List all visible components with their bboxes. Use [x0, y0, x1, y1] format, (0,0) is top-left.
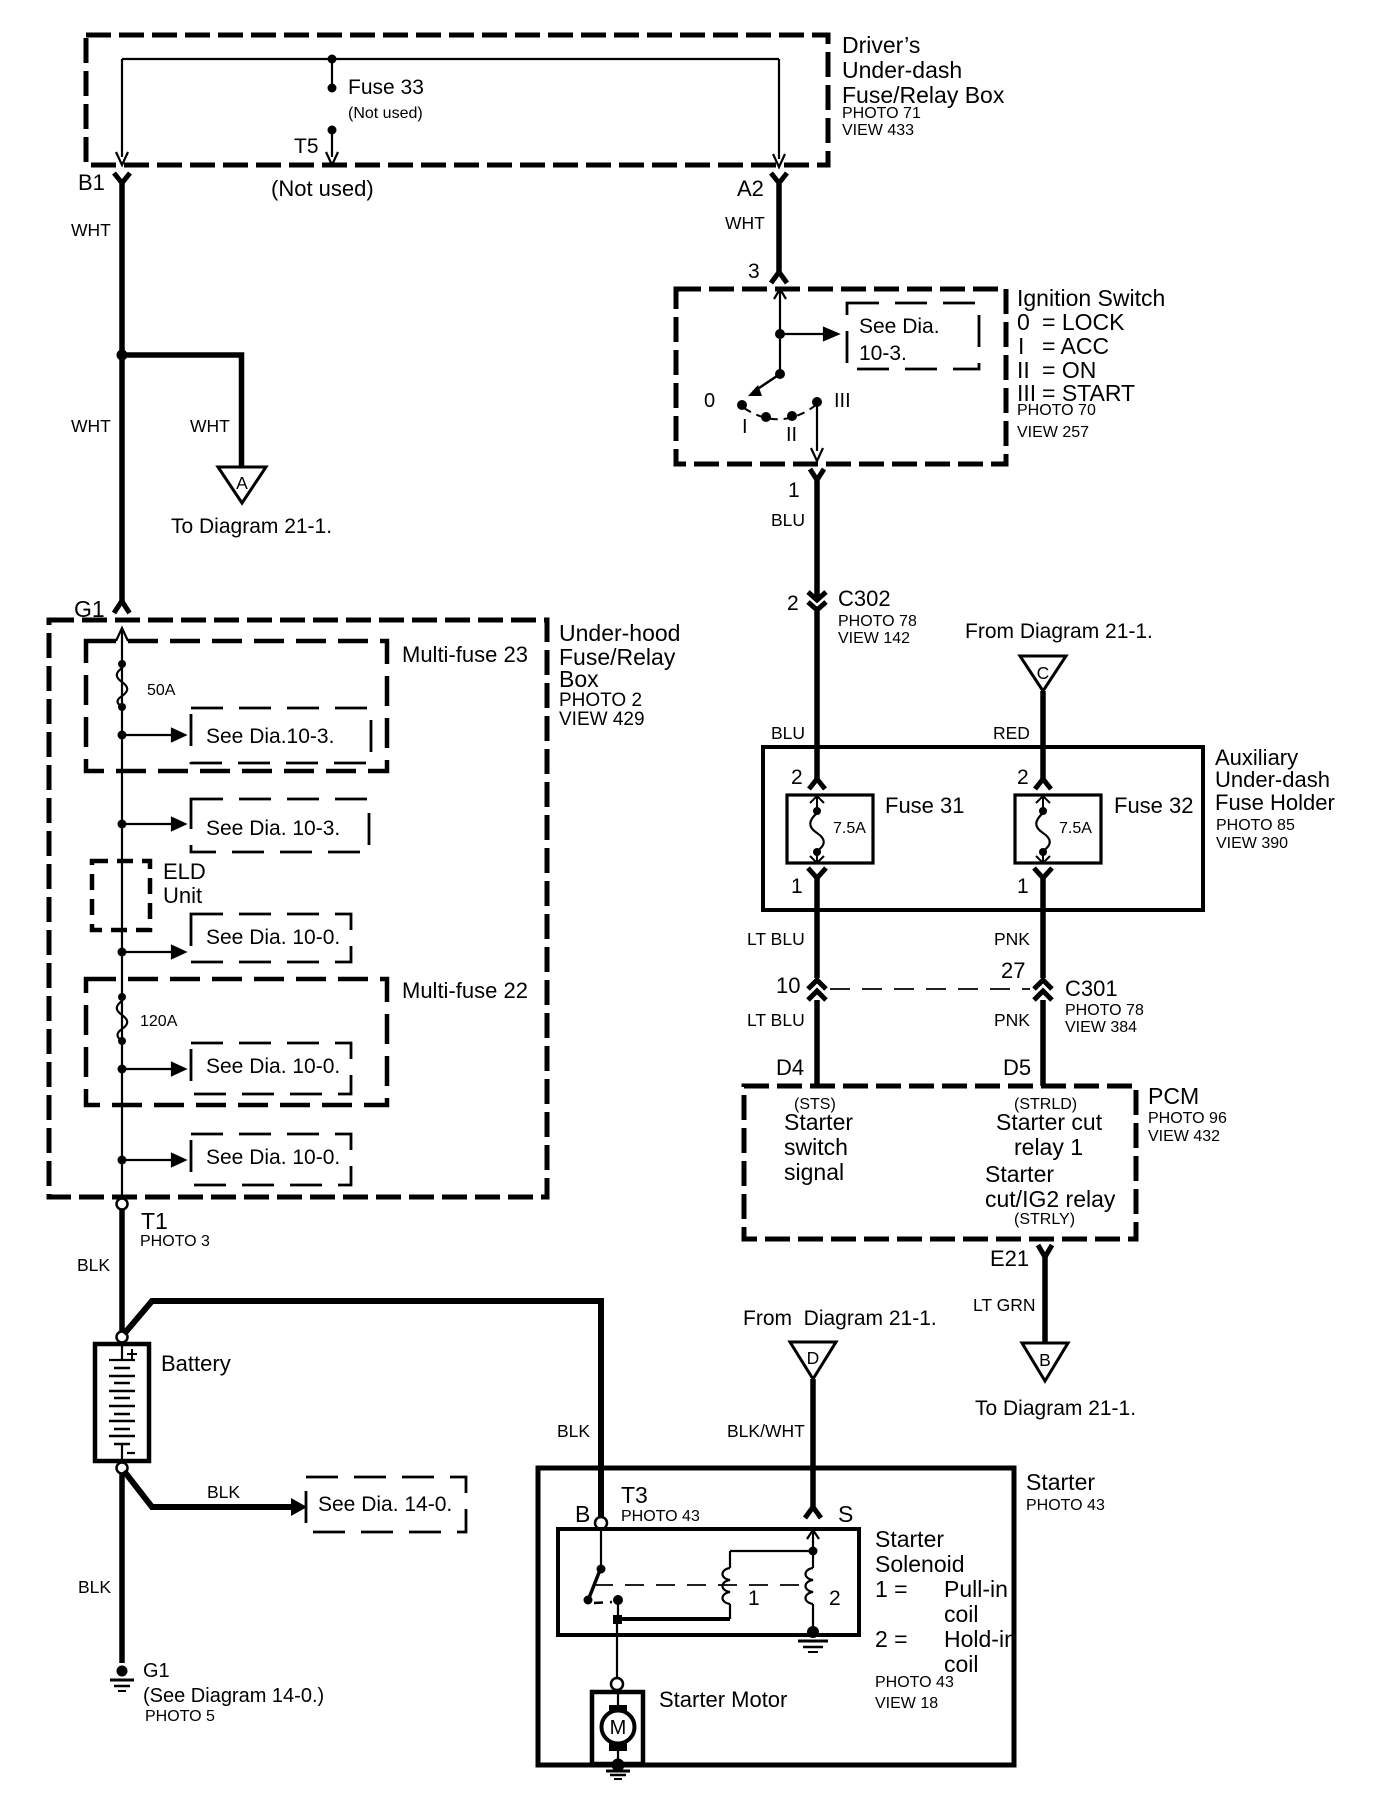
svg-text:switch: switch: [784, 1134, 848, 1160]
svg-text:(Not used): (Not used): [348, 105, 423, 122]
svg-text:(Not used): (Not used): [271, 176, 374, 201]
node: branch 4: [118, 1065, 127, 1074]
svg-text:D: D: [807, 1348, 820, 1368]
svg-text:A: A: [236, 473, 248, 493]
svg-text:Solenoid: Solenoid: [875, 1551, 965, 1577]
svg-text:BLK: BLK: [557, 1421, 590, 1441]
coil 1 pull-in coil: [620, 1617, 730, 1621]
svg-text:T5: T5: [294, 135, 319, 158]
svg-text:BLK: BLK: [77, 1255, 110, 1275]
svg-text:See Dia. 14-0.: See Dia. 14-0.: [318, 1493, 452, 1516]
pin 3 terminal fork: [771, 272, 787, 283]
svg-text:I: I: [742, 416, 748, 438]
svg-text:WHT: WHT: [71, 220, 111, 240]
fuse 31 pin 1 fork: [808, 868, 826, 878]
terminal B of starter: [595, 1517, 607, 1529]
wire BLU C302 to fuse holder: [814, 609, 820, 747]
svg-text:PHOTO 43: PHOTO 43: [1026, 1497, 1105, 1514]
node: position III START: [812, 397, 822, 407]
ref box: See Dia. 10-3.: [191, 799, 369, 852]
box: PCM: [744, 1086, 1136, 1239]
fuse F32 (Fuse 32, 7.5A): [1015, 795, 1101, 863]
wire RED connector C to fuse holder: [1040, 691, 1046, 747]
svg-text:Under-dash: Under-dash: [842, 57, 962, 83]
wire BLK/WHT connector D to starter S: [810, 1379, 816, 1508]
wire BLK to See Dia. 14-0.: [124, 1471, 291, 1507]
wire: drop to A2 with arrow: [773, 59, 785, 167]
svg-text:10: 10: [776, 973, 800, 998]
off-page connector D: [790, 1342, 836, 1379]
svg-text:Fuse Holder: Fuse Holder: [1215, 790, 1335, 815]
node: solenoid output junction: [613, 1615, 622, 1624]
wire WHT from B1: [119, 182, 125, 355]
pin A2 terminal: [771, 173, 787, 183]
wire: arrow to See Dia. 10-3.: [780, 328, 838, 340]
svg-text:ELD: ELD: [163, 859, 206, 884]
svg-text:B: B: [1039, 1350, 1051, 1370]
svg-text:BLK: BLK: [207, 1482, 240, 1502]
svg-text:Starter cut: Starter cut: [996, 1109, 1103, 1135]
node: branch 3: [118, 948, 127, 957]
svg-text:2: 2: [829, 1587, 841, 1610]
svg-text:From Diagram 21-1.: From Diagram 21-1.: [965, 620, 1153, 643]
wire PNK fuse 32 to C301: [1040, 878, 1046, 978]
svg-text:To Diagram 21-1.: To Diagram 21-1.: [975, 1397, 1136, 1420]
wire WHT branch to connector A: [122, 355, 242, 467]
svg-text:VIEW 429: VIEW 429: [559, 709, 645, 730]
wire: entry arrow at G1 into box: [116, 628, 128, 641]
pin E21 terminal fork: [1038, 1245, 1052, 1257]
svg-text:C302: C302: [838, 586, 891, 611]
fuse F33 (Fuse 33, not used): [328, 55, 337, 64]
off-page connector A: [218, 467, 266, 503]
wire WHT down to G1: [119, 355, 125, 602]
ref box: See Dia. 10-3. (ignition): [847, 303, 979, 369]
wire: dashed mechanical link: [594, 1584, 801, 1586]
svg-text:2: 2: [1017, 766, 1029, 789]
svg-text:= ACC: = ACC: [1042, 333, 1109, 359]
wire BLK to ground G1: [119, 1473, 125, 1663]
terminal S of starter: [805, 1507, 821, 1518]
svg-text:C: C: [1037, 663, 1050, 683]
wire: dashed travel arc: [744, 405, 816, 419]
node: branch 5: [118, 1156, 127, 1165]
ref box: See Dia. 10-0. (3): [191, 1134, 351, 1185]
connector C301 pin 10: [808, 980, 826, 989]
svg-text:10-3.: 10-3.: [859, 342, 907, 365]
svg-text:D5: D5: [1003, 1055, 1031, 1080]
svg-text:120A: 120A: [140, 1013, 178, 1030]
box: Under-hood Fuse/Relay Box: [49, 620, 547, 1197]
wire: arrow into solenoid from S: [807, 1530, 819, 1551]
wire LT BLU fuse 31 to C301: [814, 878, 820, 978]
box: Starter: [538, 1468, 1014, 1765]
svg-text:LT BLU: LT BLU: [747, 929, 805, 949]
svg-text:PHOTO 5: PHOTO 5: [145, 1708, 215, 1725]
svg-text:50A: 50A: [147, 682, 176, 699]
svg-text:WHT: WHT: [190, 416, 230, 436]
wire: internal bus in driver's box: [122, 58, 779, 60]
svg-text:Multi-fuse 23: Multi-fuse 23: [402, 642, 528, 667]
svg-text:See Dia. 10-0.: See Dia. 10-0.: [206, 1055, 340, 1078]
wire: arrow branch 1: [122, 729, 185, 741]
wire: arrow branch 4: [122, 1063, 185, 1075]
svg-text:0: 0: [1017, 309, 1030, 335]
switch: solenoid contact from B: [600, 1529, 602, 1569]
pin B1 terminal: [114, 173, 130, 183]
svg-text:From Diagram 21-1.: From Diagram 21-1.: [743, 1307, 937, 1330]
svg-text:Box: Box: [559, 666, 599, 692]
node: branch 2: [118, 820, 127, 829]
svg-text:See Dia. 10-3.: See Dia. 10-3.: [206, 817, 340, 840]
svg-text:II: II: [786, 424, 797, 446]
wire: drop to B1 with arrow: [116, 59, 128, 165]
svg-text:1: 1: [1017, 875, 1029, 898]
svg-text:Fuse 31: Fuse 31: [885, 793, 965, 818]
svg-text:(See Diagram 14-0.): (See Diagram 14-0.): [143, 1685, 324, 1707]
svg-text:Starter: Starter: [784, 1109, 853, 1135]
svg-text:VIEW 433: VIEW 433: [842, 122, 914, 139]
wire: entry arrow into ignition switch: [774, 289, 786, 374]
svg-text:1: 1: [788, 479, 800, 502]
svg-text:27: 27: [1001, 958, 1025, 983]
wire BLK from T1 to battery: [119, 1210, 125, 1332]
svg-text:WHT: WHT: [71, 416, 111, 436]
box: Ignition Switch: [676, 289, 1006, 464]
wire BLU ignition to C302: [814, 480, 820, 599]
wire: arrow branch 3: [122, 946, 185, 958]
svg-text:PHOTO 96: PHOTO 96: [1148, 1110, 1227, 1127]
svg-text:PHOTO 2: PHOTO 2: [559, 690, 642, 711]
svg-text:See Dia.: See Dia.: [859, 315, 940, 338]
battery BAT1: [95, 1344, 149, 1461]
svg-text:signal: signal: [784, 1159, 844, 1185]
svg-text:Driver’s: Driver’s: [842, 32, 920, 58]
svg-text:C301: C301: [1065, 976, 1118, 1001]
pin G1 terminal fork: [114, 601, 130, 613]
svg-text:PHOTO 71: PHOTO 71: [842, 105, 921, 122]
svg-text:2: 2: [791, 766, 803, 789]
svg-text:1: 1: [748, 1587, 760, 1610]
node: junction on WHT wire: [117, 350, 128, 361]
wire WHT from A2 to ignition pin 3: [776, 184, 782, 273]
wire: solenoid output to starter motor: [616, 1624, 618, 1678]
svg-text:7.5A: 7.5A: [833, 820, 866, 837]
svg-text:T3: T3: [621, 1482, 648, 1508]
svg-text:coil: coil: [944, 1601, 979, 1627]
node: position 0 LOCK: [737, 400, 747, 410]
svg-text:BLU: BLU: [771, 510, 805, 530]
svg-text:Fuse 32: Fuse 32: [1114, 793, 1194, 818]
svg-text:D4: D4: [776, 1055, 804, 1080]
svg-text:G1: G1: [143, 1660, 170, 1682]
wire into fuse 32 pin 2: [1040, 747, 1046, 781]
wire: arrow branch 5: [122, 1154, 185, 1166]
svg-text:VIEW 18: VIEW 18: [875, 1695, 938, 1712]
svg-text:Starter Motor: Starter Motor: [659, 1687, 787, 1712]
svg-text:VIEW 142: VIEW 142: [838, 630, 910, 647]
ground: hold-in coil ground: [807, 1626, 819, 1638]
ref box: See Dia. 10-0. (1): [191, 914, 351, 962]
node: junction on S feed: [809, 1547, 818, 1556]
wire BLK battery positive to starter B: [124, 1301, 601, 1517]
svg-text:PHOTO 70: PHOTO 70: [1017, 402, 1096, 419]
svg-text:See Dia. 10-0.: See Dia. 10-0.: [206, 926, 340, 949]
node: battery positive junction: [117, 1332, 128, 1343]
pin 1 terminal fork: [810, 469, 824, 480]
svg-text:PHOTO 43: PHOTO 43: [621, 1508, 700, 1525]
svg-text:1 =: 1 =: [875, 1576, 908, 1602]
box: Multi-fuse 23: [86, 641, 387, 771]
svg-text:A2: A2: [737, 176, 764, 201]
connector C301 pin 27: [1034, 980, 1052, 989]
svg-text:2: 2: [787, 592, 799, 615]
svg-text:B: B: [575, 1501, 590, 1527]
svg-text:VIEW 432: VIEW 432: [1148, 1128, 1220, 1145]
svg-text:I: I: [1018, 333, 1024, 359]
svg-text:Hold-in: Hold-in: [944, 1626, 1017, 1652]
ground: starter motor ground: [617, 1751, 619, 1762]
svg-text:PHOTO 85: PHOTO 85: [1216, 817, 1295, 834]
svg-text:PHOTO 3: PHOTO 3: [140, 1233, 210, 1250]
fuse: 120A multi-fuse element: [118, 993, 126, 1001]
svg-text:PCM: PCM: [1148, 1083, 1199, 1109]
svg-text:LT BLU: LT BLU: [747, 1010, 805, 1030]
svg-text:VIEW 390: VIEW 390: [1216, 835, 1288, 852]
fuse 32 pin 1 fork: [1034, 868, 1052, 878]
svg-text:Pull-in: Pull-in: [944, 1576, 1008, 1602]
wire PNK C301 to PCM D5: [1040, 1000, 1046, 1086]
terminal T1: [117, 1199, 128, 1210]
node: position I ACC: [761, 412, 771, 422]
svg-text:PNK: PNK: [994, 1010, 1030, 1030]
svg-text:BLU: BLU: [771, 723, 805, 743]
svg-text:PHOTO 43: PHOTO 43: [875, 1674, 954, 1691]
switch SW: ignition rotor arm: [775, 369, 785, 379]
svg-text:See Dia.10-3.: See Dia.10-3.: [206, 725, 334, 748]
svg-text:S: S: [838, 1501, 853, 1527]
wire LT BLU C301 to PCM D4: [814, 1000, 820, 1086]
svg-text:7.5A: 7.5A: [1059, 820, 1092, 837]
ground G1: [117, 1666, 128, 1677]
wire: main feed bus inside under-hood box: [121, 628, 123, 1199]
svg-text:B1: B1: [78, 170, 105, 195]
svg-text:Under-dash: Under-dash: [1215, 767, 1330, 792]
svg-text:VIEW 257: VIEW 257: [1017, 424, 1089, 441]
motor M starter motor: [592, 1692, 643, 1764]
off-page connector B: [1022, 1343, 1068, 1381]
connector C302 pin 2: [808, 592, 826, 600]
svg-text:WHT: WHT: [725, 213, 765, 233]
ref box: See Dia.10-3.: [191, 708, 371, 763]
box: Driver's Under-dash Fuse/Relay Box: [86, 35, 828, 165]
svg-text:Starter: Starter: [875, 1526, 944, 1552]
ref box: See Dia. 14-0.: [306, 1477, 466, 1532]
box: ELD Unit: [92, 861, 150, 930]
wire: arrow branch 2: [122, 818, 185, 830]
svg-text:PHOTO 78: PHOTO 78: [1065, 1002, 1144, 1019]
svg-text:PHOTO 78: PHOTO 78: [838, 613, 917, 630]
coil 2 hold-in coil: [812, 1551, 814, 1568]
svg-text:Unit: Unit: [163, 883, 202, 908]
svg-text:1: 1: [791, 875, 803, 898]
svg-text:Multi-fuse 22: Multi-fuse 22: [402, 978, 528, 1003]
node: position II ON: [787, 411, 797, 421]
svg-text:M: M: [610, 1717, 627, 1739]
svg-text:LT GRN: LT GRN: [973, 1295, 1036, 1315]
svg-text:III: III: [834, 390, 851, 412]
svg-text:Fuse 33: Fuse 33: [348, 76, 424, 99]
svg-text:Ignition Switch: Ignition Switch: [1017, 285, 1165, 311]
fuse F31 (Fuse 31, 7.5A): [787, 795, 873, 863]
svg-text:relay 1: relay 1: [1014, 1134, 1083, 1160]
svg-text:RED: RED: [993, 723, 1030, 743]
svg-text:Starter: Starter: [985, 1161, 1054, 1187]
box: Starter Solenoid: [558, 1529, 859, 1635]
svg-text:BLK: BLK: [78, 1577, 111, 1597]
box: Auxiliary Under-dash Fuse Holder: [763, 747, 1203, 910]
svg-text:To Diagram 21-1.: To Diagram 21-1.: [171, 515, 332, 538]
fuse: 50A multi-fuse element: [118, 660, 126, 668]
box: Multi-fuse 22: [86, 979, 387, 1105]
off-page connector C: [1020, 656, 1066, 691]
svg-text:T1: T1: [141, 1208, 168, 1234]
svg-text:BLK/WHT: BLK/WHT: [727, 1421, 805, 1441]
node: branch to dia 10-3: [118, 731, 127, 740]
svg-text:VIEW 384: VIEW 384: [1065, 1019, 1137, 1036]
wire LT GRN E21 to connector B: [1042, 1256, 1048, 1343]
node: moving contact: [613, 1595, 623, 1605]
svg-text:See Dia. 10-0.: See Dia. 10-0.: [206, 1146, 340, 1169]
wire: dashed connector link: [830, 988, 1030, 990]
svg-text:= LOCK: = LOCK: [1042, 309, 1125, 335]
svg-text:3: 3: [748, 260, 760, 283]
svg-text:cut/IG2 relay: cut/IG2 relay: [985, 1186, 1116, 1212]
svg-text:PNK: PNK: [994, 929, 1030, 949]
svg-text:Starter: Starter: [1026, 1469, 1095, 1495]
svg-text:Battery: Battery: [161, 1351, 231, 1376]
svg-text:2 =: 2 =: [875, 1626, 908, 1652]
svg-text:Under-hood: Under-hood: [559, 620, 680, 646]
terminal T5 (not used): [328, 126, 337, 135]
ref box: See Dia. 10-0. (2): [191, 1043, 351, 1094]
node: ignition feed junction: [775, 329, 785, 339]
svg-text:(STRLY): (STRLY): [1014, 1211, 1075, 1228]
svg-text:0: 0: [704, 390, 715, 412]
wire into fuse 31 pin 2: [814, 747, 820, 781]
node: battery negative junction: [117, 1463, 128, 1474]
wire: exit arrow to pin 1: [811, 402, 823, 461]
svg-text:E21: E21: [990, 1246, 1029, 1271]
